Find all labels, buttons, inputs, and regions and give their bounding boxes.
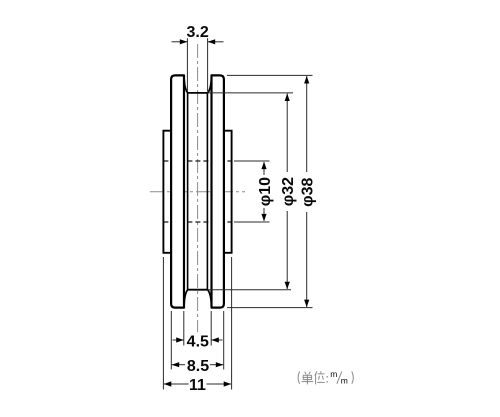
horizontal centerline bbox=[150, 191, 245, 193]
dim phi38 line lower bbox=[306, 212, 308, 307]
dim 8.5 arrow right bbox=[216, 362, 224, 367]
svg-text:φ10: φ10 bbox=[257, 177, 274, 206]
dim phi38 line upper bbox=[306, 76, 308, 172]
dim phi32 line lower bbox=[286, 211, 288, 289]
flange right (wheel rim, right side) bbox=[212, 75, 224, 307]
unit note bbox=[298, 371, 342, 384]
dim 8.5 line right bbox=[210, 364, 223, 366]
groove mouth curve bottom-left bbox=[184, 290, 188, 307]
svg-text:m: m bbox=[341, 376, 348, 386]
svg-text:8.5: 8.5 bbox=[187, 358, 209, 375]
dim phi32 line upper bbox=[286, 94, 288, 173]
hub left end bbox=[163, 131, 171, 253]
unit note colon bbox=[326, 376, 328, 382]
dim 3.2 arrow right bbox=[208, 39, 216, 44]
dim phi10 line lower bbox=[263, 208, 265, 221]
unit note open paren bbox=[298, 372, 300, 384]
dim phi38 arrow up bbox=[304, 76, 309, 84]
dim phi32 extension line bottom bbox=[207, 289, 291, 291]
svg-text:11: 11 bbox=[189, 377, 206, 394]
groove silhouette left bbox=[187, 93, 189, 290]
groove bottom edge top bbox=[188, 92, 208, 94]
groove silhouette right bbox=[206, 93, 208, 290]
dim 11 extension line right bbox=[231, 257, 233, 390]
dim 4.5 extension line right bbox=[210, 311, 212, 346]
hub right end bbox=[224, 131, 232, 253]
unit note slash bbox=[337, 371, 342, 383]
dim 4.5 line left tail bbox=[173, 339, 184, 341]
dim 11 line right bbox=[207, 383, 232, 385]
dim 4.5 arrow left bbox=[176, 337, 184, 342]
dim 11 line left bbox=[164, 383, 189, 385]
groove bottom edge bottom bbox=[188, 289, 208, 291]
dim phi10 extension line top bbox=[234, 160, 270, 162]
dim phi38 extension line top bbox=[227, 74, 313, 76]
dim 4.5 line right tail bbox=[211, 339, 222, 341]
dim phi10 arrow up bbox=[261, 162, 266, 170]
dim 8.5 extension line left bbox=[170, 311, 172, 370]
dim 11 extension line left bbox=[162, 257, 164, 390]
dim 3.2 arrow left bbox=[180, 39, 188, 44]
dim phi32 arrow down bbox=[285, 282, 290, 290]
groove mouth curve bottom-right bbox=[208, 290, 212, 307]
dim phi10 arrow down bbox=[261, 214, 266, 222]
dim phi38 extension line bottom bbox=[227, 307, 313, 309]
dim 3.2 line right tail bbox=[208, 41, 224, 43]
svg-text:m: m bbox=[330, 369, 337, 379]
dim 8.5 extension line right bbox=[223, 311, 225, 370]
dim 8.5 line left bbox=[172, 364, 185, 366]
dim phi10 extension line bottom bbox=[234, 221, 270, 223]
dim 8.5 arrow left bbox=[172, 362, 180, 367]
svg-text:4.5: 4.5 bbox=[187, 334, 209, 351]
bore hidden line bottom bbox=[163, 221, 231, 223]
dim 4.5 arrow right bbox=[211, 337, 219, 342]
svg-text:3.2: 3.2 bbox=[186, 24, 208, 41]
unit note close paren bbox=[352, 372, 354, 384]
dim phi38 arrow down bbox=[304, 300, 309, 308]
flange left (wheel rim, left side) bbox=[171, 75, 184, 307]
groove mouth curve top-left bbox=[184, 77, 188, 93]
bore hidden line top bbox=[163, 160, 231, 162]
unit note kanji i (rank) bbox=[315, 371, 325, 384]
vertical centerline bbox=[197, 44, 199, 332]
svg-text:φ38: φ38 bbox=[300, 177, 317, 206]
dim 3.2 extension line right bbox=[207, 38, 209, 91]
dim 3.2 extension line left bbox=[186, 38, 188, 91]
unit note kanji tan (unit) bbox=[302, 372, 314, 385]
dim 3.2 line left tail bbox=[172, 41, 188, 43]
dim 4.5 extension line left bbox=[183, 311, 185, 346]
groove mouth curve top-right bbox=[208, 77, 212, 93]
dim phi32 arrow up bbox=[285, 94, 290, 102]
dim phi32 extension line top bbox=[207, 92, 293, 94]
dim phi10 line upper bbox=[263, 162, 265, 175]
dim 11 arrow left bbox=[164, 381, 172, 386]
dim 11 arrow right bbox=[224, 381, 232, 386]
svg-text:φ32: φ32 bbox=[280, 177, 297, 206]
